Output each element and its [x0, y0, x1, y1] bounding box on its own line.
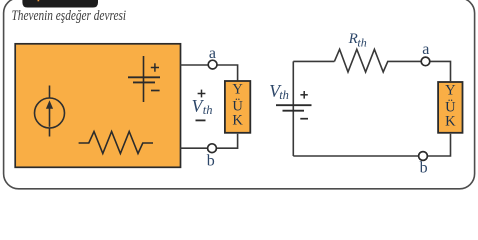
- svg-text:th: th: [357, 36, 366, 50]
- svg-text:b: b: [207, 152, 215, 169]
- svg-text:K: K: [445, 114, 456, 130]
- svg-text:Thevenin eşdeğer devresi: Thevenin eşdeğer devresi: [12, 8, 127, 24]
- svg-text:Y: Y: [232, 82, 243, 98]
- svg-text:th: th: [203, 103, 213, 117]
- svg-text:Y: Y: [445, 83, 456, 99]
- svg-text:b: b: [420, 159, 428, 176]
- svg-text:a: a: [209, 45, 216, 62]
- svg-text:R: R: [348, 31, 358, 47]
- svg-text:th: th: [279, 88, 289, 102]
- svg-text:K: K: [232, 113, 243, 129]
- svg-text:a: a: [422, 41, 429, 58]
